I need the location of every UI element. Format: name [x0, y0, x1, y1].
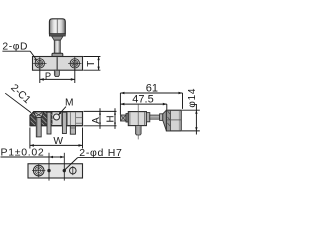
dowel hole 2 [63, 169, 66, 172]
label 2-C1 [5, 83, 32, 113]
svg-text:φ14: φ14 [187, 88, 198, 108]
knob neck taper [52, 36, 63, 40]
svg-text:T: T [86, 61, 97, 67]
section bar [30, 112, 83, 126]
pin far right below bar [70, 126, 75, 134]
washer at tip [126, 114, 128, 122]
dowel pin right [62, 112, 66, 133]
dowel hole 1 [47, 169, 50, 172]
label 2-phiD with leader [2, 41, 36, 61]
thin shaft [150, 115, 160, 119]
shaft collar at block [146, 113, 149, 122]
dimension T [83, 57, 100, 71]
dimension A [84, 108, 117, 129]
knob bottom band [49, 34, 65, 36]
hidden hole lines right part [62, 112, 83, 125]
hole right [68, 57, 81, 70]
screw stem [54, 40, 60, 53]
svg-text:P: P [45, 71, 51, 81]
svg-text:A: A [91, 117, 102, 124]
dimension 47.5 [120, 104, 166, 109]
clamp screw tip [121, 115, 127, 121]
svg-text:W: W [53, 136, 63, 147]
svg-text:61: 61 [146, 82, 158, 94]
screw tip below bar [54, 70, 59, 76]
hole left [33, 57, 46, 70]
bar (front view) [33, 57, 83, 71]
label M with leader [59, 98, 74, 115]
dimension 61 [120, 93, 182, 115]
center line of mounting screw [137, 104, 139, 139]
bottom plate [28, 164, 83, 178]
stem collar washer [52, 53, 63, 56]
tapped hole M circle [54, 114, 60, 120]
svg-text:H: H [105, 115, 116, 122]
svg-text:47.5: 47.5 [132, 94, 153, 106]
dimension W [30, 128, 83, 149]
shaft step piece [160, 114, 163, 121]
block (bar cross-section) [128, 112, 146, 126]
screw hole right [70, 166, 77, 175]
flat head screw in section [34, 112, 44, 137]
screw shaft line through bar [56, 57, 58, 70]
label 2-phid H7 with leader [65, 147, 123, 170]
dimension H [114, 108, 116, 129]
dimension P [40, 69, 75, 83]
label P1 with dimension [1, 147, 65, 181]
counterbored hole [32, 164, 45, 177]
dimension phi14 [182, 105, 200, 135]
cone flare to knob [163, 110, 167, 131]
knob (side view) [166, 110, 181, 131]
dowel pin left [47, 112, 51, 134]
knurled knob [49, 19, 65, 34]
mounting screw below block [136, 126, 142, 135]
